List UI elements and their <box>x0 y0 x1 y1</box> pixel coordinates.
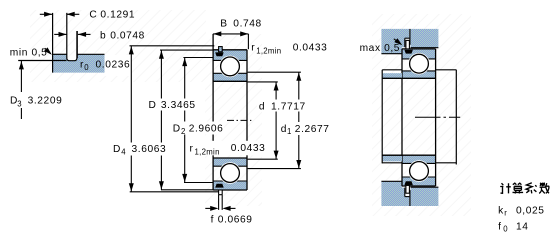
bearing left face line (right view) <box>401 49 403 186</box>
svg-text:0.0236: 0.0236 <box>96 59 131 70</box>
bearing right face line <box>246 50 248 190</box>
drawing background hatch left detail area <box>30 10 206 82</box>
svg-text:1: 1 <box>287 127 292 136</box>
svg-text:3: 3 <box>17 99 22 108</box>
outer ring shoulder line upper <box>213 59 247 61</box>
svg-text:2.9606: 2.9606 <box>189 124 224 135</box>
raceway clearance lower (right view) <box>408 160 430 182</box>
inner ring lower section (right view) <box>402 155 436 163</box>
inner ring upper section <box>213 73 247 81</box>
svg-text:r: r <box>190 143 194 154</box>
outer ring shoulder line upper (right view) <box>402 58 436 60</box>
snap ring groove lower (middle view) <box>215 184 224 188</box>
svg-text:0.0433: 0.0433 <box>293 43 328 54</box>
dimension D4 leader bottom <box>130 191 219 193</box>
inner ring upper section (right view) <box>402 71 436 78</box>
svg-text:D: D <box>113 144 121 155</box>
dimension D leader bottom <box>161 189 213 191</box>
svg-text:B: B <box>220 19 227 30</box>
dimension D2 leader top <box>183 57 213 59</box>
svg-text:0.1291: 0.1291 <box>100 9 135 20</box>
shaft step vertical line <box>455 70 457 165</box>
outer diameter line lower (right view) <box>402 185 436 187</box>
housing joint line lower <box>409 190 411 206</box>
shaft shoulder band upper <box>383 73 402 78</box>
dimension d leader top <box>248 81 278 83</box>
outer ring shoulder line lower (right view) <box>402 176 436 178</box>
shaft shoulder band lower <box>383 156 402 162</box>
inner ring lower section <box>213 158 247 166</box>
axis centerline (right view) <box>415 116 460 118</box>
label r1,2min 0.0433 lower-left <box>188 141 266 157</box>
snap ring lower (right view) <box>406 185 410 193</box>
svg-text:2.2677: 2.2677 <box>295 124 330 135</box>
label r0 0.0236 <box>80 55 131 76</box>
inner ring top line upper (right view) <box>402 70 436 72</box>
bore line lower (right view) <box>382 154 435 156</box>
inner ring bottom line lower (right view) <box>402 162 436 164</box>
label f0 14 <box>498 221 528 233</box>
dimension d1 line <box>296 72 301 168</box>
dimension B line <box>213 31 248 49</box>
housing lower-left block <box>381 181 409 206</box>
dimension D2 leader bottom <box>184 182 213 184</box>
outer ring upper section (right view) <box>402 49 436 59</box>
label D2 2.9606 <box>171 122 224 136</box>
dimension d1 leader top <box>248 71 301 73</box>
svg-text:2: 2 <box>181 127 186 136</box>
housing joint line upper <box>409 29 411 45</box>
bearing left face line <box>212 34 214 190</box>
snap ring upper (right view) <box>406 40 410 49</box>
dimension d line <box>274 82 279 159</box>
housing upper-right block <box>411 29 439 48</box>
svg-text:1,2min: 1,2min <box>256 47 281 56</box>
label D3 3.2209 <box>10 96 62 109</box>
label d 1.7717 <box>257 100 306 113</box>
label D4 3.6063 <box>111 143 167 157</box>
raceway clearance lower <box>219 162 241 184</box>
svg-text:1.7717: 1.7717 <box>271 101 306 112</box>
D3 groove-diameter reference line <box>18 60 66 62</box>
dimension C line <box>40 12 80 17</box>
svg-text:d: d <box>259 101 265 112</box>
svg-text:0.748: 0.748 <box>233 19 261 30</box>
svg-text:4: 4 <box>121 147 126 156</box>
ball lower <box>221 164 240 183</box>
svg-text:0: 0 <box>503 225 508 234</box>
label d1 2.2677 <box>279 122 330 136</box>
dimension d leader bottom <box>248 158 278 160</box>
svg-text:0,025: 0,025 <box>516 205 545 216</box>
dimension b line <box>54 31 90 58</box>
bore line upper (right view) <box>382 77 435 79</box>
shaft surface line lower <box>382 154 402 156</box>
dimension f extension lines <box>219 195 223 210</box>
label r1,2min 0.0433 top <box>251 43 327 56</box>
svg-text:3.3465: 3.3465 <box>161 100 196 111</box>
bore line upper <box>213 80 247 82</box>
svg-text:D: D <box>149 100 157 111</box>
svg-text:0: 0 <box>84 63 89 72</box>
shaft shoulder face line <box>381 70 383 164</box>
raceway clearance upper <box>219 56 241 78</box>
svg-text:C: C <box>89 9 97 20</box>
svg-text:min 0,5: min 0,5 <box>10 48 48 59</box>
svg-text:f: f <box>498 221 501 232</box>
outer ring shoulder line lower <box>213 180 247 182</box>
drawing background hatch right view area <box>372 14 471 216</box>
label kr 0,025 <box>498 205 544 217</box>
outer ring lower section <box>213 181 247 190</box>
svg-text:1,2min: 1,2min <box>195 148 220 157</box>
snap ring groove upper (right view) <box>404 50 413 54</box>
dimension D leader top <box>160 49 213 51</box>
shaft surface line upper <box>382 77 402 79</box>
min 0,5 leader <box>44 47 52 54</box>
ball lower (right view) <box>410 162 429 181</box>
outer ring cross-section detail (blue) <box>52 13 104 73</box>
ball upper (right view) <box>410 54 429 73</box>
outer diameter line lower <box>213 189 247 191</box>
bearing right face line (right view) <box>435 49 437 186</box>
ball upper <box>221 57 240 76</box>
housing upper-left block <box>381 29 409 54</box>
label f 0.0669 <box>211 214 253 225</box>
inner ring bottom line lower <box>213 165 247 167</box>
max 0,5 leader <box>394 38 403 45</box>
shaft step line upper right <box>436 69 457 71</box>
svg-text:r: r <box>504 209 507 218</box>
outer diameter line upper <box>213 49 247 51</box>
drawing background hatch middle view area <box>205 34 262 206</box>
inner ring top line upper <box>213 72 247 74</box>
raceway clearance upper (right view) <box>408 53 430 75</box>
snap ring lower (middle view) <box>219 190 223 195</box>
label D 3.3465 <box>147 99 196 112</box>
shaft step line lower right <box>436 162 457 164</box>
label 计算系数 (calculation factors) <box>500 183 549 194</box>
outer diameter line upper (right view) <box>402 48 436 50</box>
shaft shoulder bottom line lower <box>382 162 402 164</box>
shaft shoulder top line upper <box>382 69 402 71</box>
svg-text:3.2209: 3.2209 <box>28 96 63 107</box>
svg-text:0.0669: 0.0669 <box>218 214 253 225</box>
label min 0,5 <box>10 48 48 59</box>
svg-text:b: b <box>100 30 106 41</box>
svg-text:k: k <box>498 205 504 216</box>
label max 0,5 <box>360 43 400 54</box>
dimension f arrows <box>205 206 235 211</box>
svg-text:r: r <box>251 43 255 54</box>
dimension d1 leader bottom <box>248 168 301 170</box>
snap ring groove upper (middle view) <box>215 52 224 56</box>
svg-text:0.0748: 0.0748 <box>110 30 145 41</box>
dimension D3 line <box>19 61 24 119</box>
dimension D4 line <box>129 46 134 192</box>
svg-text:3.6063: 3.6063 <box>132 144 167 155</box>
svg-text:14: 14 <box>516 221 529 232</box>
outer ring upper section <box>213 50 247 61</box>
dimension D2 line <box>182 58 187 183</box>
snap ring groove (detail) <box>67 13 77 61</box>
label b 0.0748 <box>100 30 145 41</box>
snap ring upper (middle view) <box>219 47 223 52</box>
housing lower-right block <box>411 187 439 206</box>
label B 0.748 <box>220 19 262 30</box>
snap ring groove lower (right view) <box>404 181 413 185</box>
label C 0.1291 <box>89 9 135 20</box>
svg-text:f: f <box>211 214 214 225</box>
dimension D4 leader top <box>130 45 215 47</box>
bore line lower <box>213 157 247 159</box>
svg-text:max 0,5: max 0,5 <box>360 43 400 54</box>
svg-text:D: D <box>173 124 181 135</box>
dimension D line <box>159 50 164 190</box>
svg-text:0.0433: 0.0433 <box>231 143 266 154</box>
axis centerline (middle view) <box>227 119 251 121</box>
outer ring lower section (right view) <box>402 177 436 186</box>
